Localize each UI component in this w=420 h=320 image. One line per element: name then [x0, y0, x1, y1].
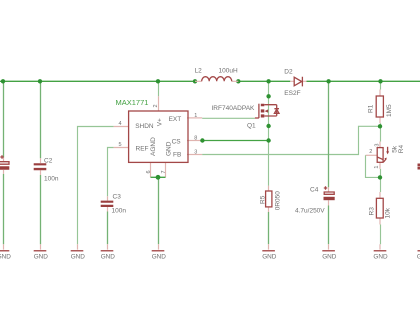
svg-text:1: 1 — [194, 113, 197, 119]
capacitor C3 — [101, 193, 127, 214]
ground GND under C2 — [34, 250, 49, 260]
IC pin names — [135, 116, 181, 158]
svg-text:REF: REF — [136, 145, 149, 152]
junction at CS pin 8 — [200, 138, 204, 142]
wire C1 branch — [3, 81, 5, 249]
svg-text:AGND: AGND — [150, 137, 157, 156]
junction CS / Q1 source / R5 — [266, 138, 270, 142]
svg-text:D2: D2 — [284, 69, 293, 76]
wire V+ pin2 drop — [158, 81, 160, 111]
junction at bus / R1 — [378, 79, 382, 83]
IC pin numbers — [119, 104, 198, 173]
junction R4 wiper / R3 — [378, 175, 382, 179]
svg-text:SHDN: SHDN — [135, 123, 154, 130]
inductor L2 — [195, 67, 239, 81]
svg-text:1: 1 — [374, 166, 380, 169]
svg-text:8: 8 — [194, 136, 197, 142]
svg-text:GND: GND — [101, 253, 116, 260]
wire FB net — [187, 126, 380, 154]
junction at bus / Q1 drain — [266, 79, 270, 83]
svg-text:3: 3 — [374, 144, 380, 147]
svg-text:R4: R4 — [398, 145, 405, 154]
svg-text:4.7u/250V: 4.7u/250V — [295, 207, 325, 214]
capacitor C2 — [34, 157, 59, 182]
svg-text:EXT: EXT — [169, 116, 182, 123]
junction at VIN bus / C2 — [38, 79, 42, 83]
svg-text:2: 2 — [369, 149, 372, 155]
svg-text:L2: L2 — [195, 67, 203, 74]
svg-text:1M5: 1M5 — [386, 104, 393, 117]
wire EXT to gate — [187, 117, 259, 119]
svg-text:GND: GND — [0, 253, 11, 260]
ground GND under R3 — [373, 250, 388, 260]
junction at L2 pin 1 — [193, 79, 197, 83]
resistor R1 — [368, 96, 393, 117]
svg-text:CS: CS — [172, 139, 182, 146]
svg-text:R1: R1 — [368, 104, 375, 113]
svg-text:IRF740ADPAK: IRF740ADPAK — [212, 105, 256, 112]
svg-text:GND: GND — [262, 253, 277, 260]
junction FB / R1 / R4 — [378, 124, 382, 128]
svg-text:3: 3 — [194, 150, 197, 156]
svg-text:ES2F: ES2F — [284, 90, 300, 97]
ground GND for IC pins 6 7 — [152, 250, 167, 260]
svg-text:V+: V+ — [156, 118, 163, 126]
svg-text:2: 2 — [153, 104, 159, 107]
junction at IC ground pins — [156, 175, 161, 180]
wire CS net — [187, 140, 269, 142]
ground GND under R5 — [262, 250, 277, 260]
wire IC ground pins 6 7 — [151, 162, 166, 249]
capacitor C1 (cut at edge) — [0, 155, 9, 170]
wire R1 R4 R3 column — [379, 81, 382, 249]
resistor R5 — [260, 191, 282, 211]
wire C4 branch — [328, 81, 330, 249]
diode D2 — [284, 69, 306, 98]
svg-text:GND: GND — [34, 253, 49, 260]
wire REF / C3 net — [108, 148, 129, 250]
wire C2 branch — [40, 81, 42, 249]
ground GND under C4 — [322, 250, 337, 260]
junction at Q1 source pin — [266, 124, 270, 128]
svg-text:C3: C3 — [113, 193, 122, 200]
svg-text:GND: GND — [71, 253, 86, 260]
ground GND under C3 — [101, 250, 116, 260]
op-amp U1 MAX1771 IC body — [116, 98, 189, 162]
svg-text:100n: 100n — [44, 175, 59, 182]
ground GND at right edge — [417, 250, 420, 260]
wire Q1 drain drop — [268, 81, 270, 116]
svg-text:GND: GND — [373, 253, 388, 260]
svg-text:FB: FB — [173, 152, 181, 159]
svg-text:GND: GND — [322, 253, 337, 260]
ground GND under C1 — [0, 250, 11, 260]
junction at Q1 drain pin — [266, 94, 270, 98]
wire Q1 source to R5 — [268, 116, 270, 250]
svg-text:GND: GND — [152, 253, 167, 260]
capacitor C5 cut at right edge — [418, 164, 420, 170]
svg-text:100uH: 100uH — [219, 67, 238, 74]
svg-text:Q1: Q1 — [247, 123, 256, 130]
resistor R3 — [369, 198, 392, 218]
svg-text:4: 4 — [119, 121, 122, 127]
wire VIN top bus — [0, 80, 420, 82]
svg-text:GND: GND — [165, 141, 172, 156]
svg-text:10k: 10k — [384, 207, 391, 218]
svg-text:7: 7 — [161, 170, 167, 173]
wire SHDN net — [78, 127, 129, 250]
junction at VIN bus / C1 — [1, 79, 5, 83]
junction at L2 pin 2 — [236, 79, 240, 83]
svg-text:0R050: 0R050 — [275, 191, 282, 211]
svg-text:R5: R5 — [260, 195, 267, 204]
svg-text:C4: C4 — [310, 186, 319, 193]
svg-text:R3: R3 — [369, 207, 376, 216]
transistor Q1 — [212, 104, 280, 130]
junction at VIN bus / pin 2 — [156, 79, 160, 83]
svg-text:5: 5 — [119, 142, 122, 148]
junction at bus / C4 — [326, 79, 330, 83]
trimmer R4 — [369, 144, 405, 169]
wire R4 wiper to bottom — [366, 155, 379, 177]
svg-text:100n: 100n — [112, 207, 127, 214]
ground GND for SHDN — [71, 250, 86, 260]
svg-text:MAX1771: MAX1771 — [116, 98, 149, 107]
capacitor C4 — [295, 186, 335, 214]
svg-text:C2: C2 — [44, 157, 53, 164]
svg-text:6: 6 — [146, 170, 152, 173]
